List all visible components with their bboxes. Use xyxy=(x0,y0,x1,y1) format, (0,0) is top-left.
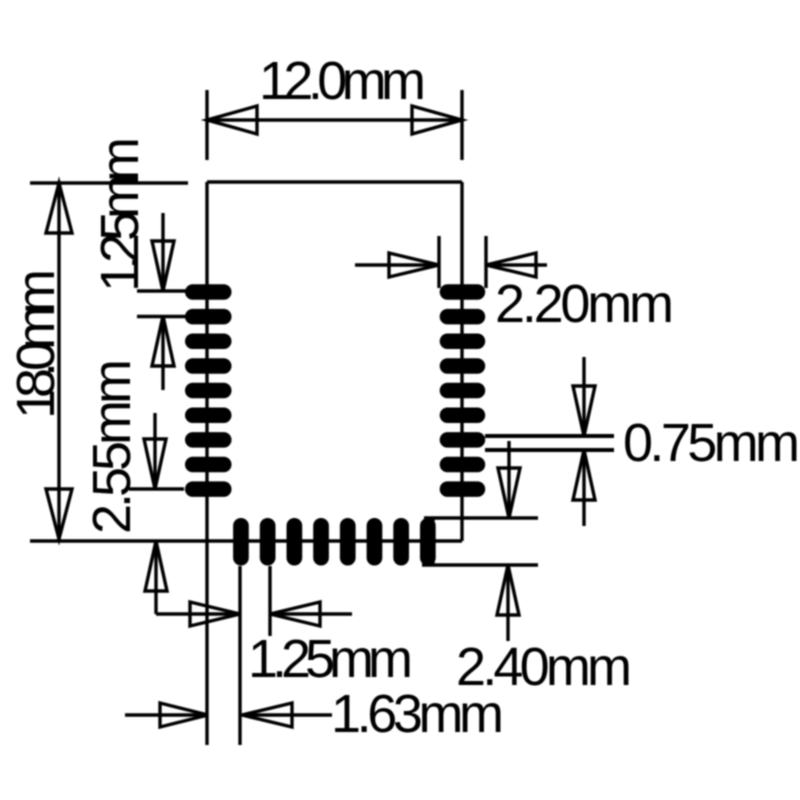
arrow 2.20mm pointing right xyxy=(389,253,439,277)
extension line pad B2 center xyxy=(268,566,271,636)
0.75mm upper arrow stem xyxy=(582,357,585,436)
svg-text:2.20mm: 2.20mm xyxy=(495,274,674,334)
bottom pad 1 xyxy=(233,518,249,566)
right pad 4 xyxy=(440,358,486,374)
arrow 1.25mm bottom pointing right xyxy=(190,602,240,626)
arrow 12.0mm right xyxy=(412,106,462,134)
2.20mm extension tick left xyxy=(437,236,440,288)
module outline right edge xyxy=(460,182,463,541)
right pad 2 xyxy=(440,309,486,325)
1.63mm dim tail left xyxy=(125,713,208,716)
bottom pad 5 xyxy=(340,518,356,566)
1.25mm bottom dim tail left xyxy=(156,612,240,615)
1.63mm dim tail right xyxy=(242,713,332,716)
left pad 2 xyxy=(185,309,232,325)
arrow 1.63mm pointing left xyxy=(242,703,292,727)
arrow 12.0mm left xyxy=(207,106,257,134)
right pad 3 xyxy=(440,334,486,350)
1.25mm left tick lower xyxy=(137,315,188,318)
0.75mm reference line upper xyxy=(485,434,614,438)
bottom-right bracket vertical xyxy=(431,518,434,565)
arrow 2.55mm up xyxy=(145,541,167,591)
left pad 5 xyxy=(185,383,232,399)
12.0mm extension tick right xyxy=(460,90,463,160)
right pad 9 xyxy=(440,481,486,497)
arrow 1.25mm bottom pointing left xyxy=(270,602,320,626)
svg-text:1.25mm: 1.25mm xyxy=(90,137,150,292)
left pad 1 xyxy=(185,284,232,300)
arrow 2.40mm up xyxy=(497,565,519,615)
2.55mm tick xyxy=(129,487,184,490)
arrow 2.20mm pointing left xyxy=(486,253,536,277)
arrow 1.25mm left down xyxy=(152,241,174,291)
bottom pad 8 xyxy=(420,518,436,566)
arrow 2.55mm down xyxy=(144,439,166,489)
2.40mm upper arrow stem xyxy=(507,441,510,518)
2.55mm lower arrow stem xyxy=(154,541,157,614)
2.20mm extension tick right xyxy=(484,236,487,288)
arrow 2.40mm down xyxy=(498,468,520,518)
right pad 8 xyxy=(440,457,486,473)
svg-text:1.25mm: 1.25mm xyxy=(248,629,413,689)
1.25mm left upper arrow stem xyxy=(161,213,164,291)
arrow 1.25mm left up xyxy=(152,316,174,366)
bottom pad 2 xyxy=(260,518,276,566)
right pad 7 xyxy=(440,432,486,448)
bottom baseline wire xyxy=(30,539,462,542)
extension line pad B1 center xyxy=(238,566,241,745)
2.40mm lower arrow stem xyxy=(506,565,509,641)
arrow 0.75mm up xyxy=(573,450,595,500)
1.25mm left tick upper xyxy=(137,289,188,292)
bottom pad 4 xyxy=(313,518,329,566)
bottom pad 6 xyxy=(367,518,383,566)
arrow 18.0mm bottom xyxy=(46,489,72,539)
0.75mm reference line lower xyxy=(485,448,614,452)
right pad 6 xyxy=(440,408,486,424)
module outline top edge xyxy=(207,180,462,183)
left pad 9 xyxy=(185,481,232,497)
2.20mm dim tail left xyxy=(355,263,439,266)
svg-text:2.55mm: 2.55mm xyxy=(82,359,142,534)
18.0mm dimension line xyxy=(57,183,60,540)
arrow 18.0mm top xyxy=(46,183,72,233)
left pad 7 xyxy=(185,432,232,448)
1.25mm left lower arrow stem xyxy=(161,316,164,390)
12.0mm dimension line xyxy=(207,118,462,121)
12.0mm extension tick left xyxy=(205,90,208,160)
18.0mm top extension tick xyxy=(30,181,188,184)
arrow 0.75mm down xyxy=(573,386,595,436)
left pad 3 xyxy=(185,334,232,350)
svg-text:0.75mm: 0.75mm xyxy=(623,413,800,473)
1.25mm bottom dim tail right xyxy=(270,612,352,615)
bottom-right bracket top line xyxy=(424,516,538,519)
2.55mm upper arrow stem xyxy=(153,413,156,489)
svg-text:1.63mm: 1.63mm xyxy=(331,684,504,744)
bottom-right bracket bottom line xyxy=(422,563,538,566)
svg-text:18.0mm: 18.0mm xyxy=(6,269,66,419)
left pad 4 xyxy=(185,358,232,374)
svg-text:12.0mm: 12.0mm xyxy=(259,51,426,111)
right pad 1 xyxy=(440,284,486,300)
bottom pad 7 xyxy=(393,518,409,566)
arrow 1.63mm pointing right xyxy=(160,703,208,727)
module outline left edge / extension line xyxy=(205,182,208,745)
left pad 6 xyxy=(185,408,232,424)
bottom pad 3 xyxy=(287,518,303,566)
right pad 5 xyxy=(440,383,486,399)
2.20mm dim tail right xyxy=(486,263,547,266)
left pad 8 xyxy=(185,457,232,473)
0.75mm lower arrow stem xyxy=(582,450,585,526)
